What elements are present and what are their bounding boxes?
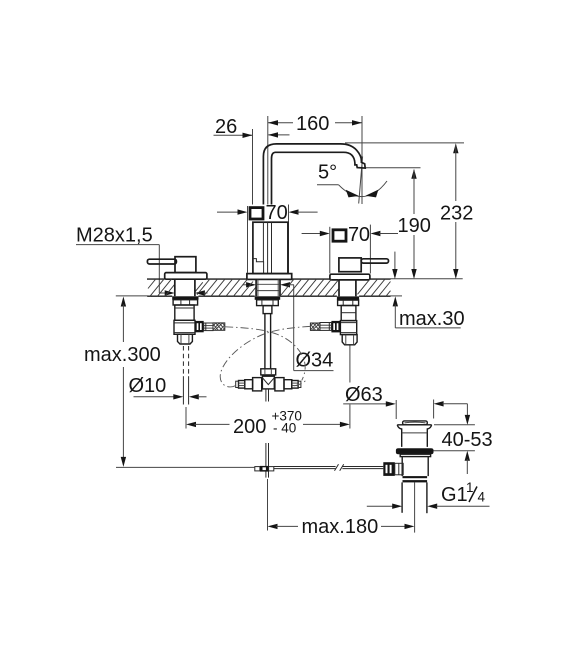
spout outline	[263, 144, 365, 205]
long horizontal reference line (max.300 base)	[116, 466, 255, 468]
pull rod vertical	[266, 389, 269, 478]
extension line x=362 (5 deg reference)	[361, 116, 363, 204]
extension line B x=267.8	[267, 116, 269, 205]
drain seal ring (black)	[396, 448, 434, 454]
diameter34 callout arrows and leader	[243, 282, 334, 371]
deck top line	[147, 278, 391, 280]
drain plug knob	[403, 421, 428, 425]
right hose sleeve	[320, 323, 331, 331]
svg-text:Ø63: Ø63	[345, 384, 383, 406]
drain under-seal lip	[400, 454, 430, 456]
center tube nut	[261, 369, 276, 375]
svg-text:190: 190	[398, 215, 431, 237]
svg-text:4: 4	[478, 490, 486, 505]
drain flange ring	[397, 425, 431, 447]
left valve bottom nut	[178, 334, 193, 344]
drain tailpipe	[402, 482, 427, 513]
center locknut	[257, 300, 279, 306]
right handle body	[339, 258, 361, 272]
center body internal waterway	[253, 259, 264, 274]
svg-text:200: 200	[233, 416, 266, 438]
svg-text:max.180: max.180	[302, 516, 379, 538]
left hose sleeve	[204, 323, 213, 331]
left valve locknut	[173, 300, 198, 305]
right shank through deck	[339, 280, 356, 296]
drain body	[402, 457, 428, 477]
svg-text:5°: 5°	[318, 162, 337, 184]
left escutcheon	[165, 273, 207, 280]
G1 1/4 leader	[367, 504, 490, 509]
right handle lever	[361, 259, 388, 263]
drain rod knurled adjuster	[383, 462, 395, 476]
max.30 lower arrow and leader	[393, 296, 461, 328]
phantom hose curve from right valve with loop	[220, 326, 310, 387]
svg-text:1: 1	[466, 480, 474, 495]
left valve rod solid	[183, 376, 188, 404]
M28x1,5 leader	[76, 245, 208, 296]
right valve body	[341, 306, 356, 321]
center supply tube	[265, 314, 271, 369]
left valve washer (black)	[172, 296, 198, 299]
dimension 160	[268, 120, 362, 125]
left valve mid section	[174, 320, 195, 334]
right check valve	[275, 378, 301, 391]
phantom hose curve from left valve	[225, 327, 305, 381]
svg-text:- 40: - 40	[273, 421, 296, 436]
left hose knurled nut	[195, 321, 204, 332]
dim square70 no1 arrows and extensions	[217, 205, 318, 273]
svg-text:70: 70	[266, 202, 288, 224]
drain rod connector piece	[395, 463, 403, 475]
dim square symbol 2	[333, 230, 346, 241]
5 deg arc	[339, 181, 387, 197]
pull rod connector	[255, 466, 274, 472]
svg-text:40-53: 40-53	[442, 429, 493, 451]
left handle body	[175, 257, 196, 273]
left valve hidden rod (dashed)	[183, 346, 188, 376]
svg-text:26: 26	[215, 116, 237, 138]
phantom snippet near right check valve	[294, 379, 307, 386]
deck bottom line	[147, 295, 390, 297]
center shank through deck	[256, 279, 280, 296]
svg-text:70: 70	[348, 224, 370, 246]
rod break marks	[335, 464, 344, 471]
5 deg tilted axis	[359, 157, 363, 204]
white knockout behind 200 dimension text	[230, 402, 304, 444]
right valve locknut	[338, 300, 359, 305]
center body	[253, 222, 288, 273]
center adapter	[263, 306, 272, 314]
deck hatch	[148, 279, 391, 296]
left valve body	[175, 305, 194, 320]
right valve mid section	[340, 321, 356, 335]
left check valve	[236, 378, 262, 391]
svg-text:160: 160	[296, 113, 329, 135]
svg-text:M28x1,5: M28x1,5	[76, 225, 153, 247]
dimension 232	[453, 143, 458, 279]
dim square symbol 1	[250, 208, 263, 219]
drain thread bands	[403, 476, 428, 478]
dimension 190	[411, 169, 416, 279]
dimension 40-53	[434, 404, 475, 474]
dimension 26	[214, 132, 290, 138]
right hose knurled nut	[331, 321, 341, 333]
center washer (black)	[255, 296, 281, 300]
T-piece center block with funnel	[262, 376, 274, 389]
left handle lever	[147, 259, 176, 264]
dimension 200 +370-40	[186, 345, 350, 429]
dimension max.180	[268, 479, 415, 533]
svg-text:max.300: max.300	[84, 344, 161, 366]
diameter63 callout	[343, 400, 467, 420]
left hose braid	[213, 323, 225, 330]
center escutcheon	[247, 274, 292, 280]
riser tube lines inside body	[263, 222, 271, 273]
extension line A x=252.5	[252, 129, 254, 205]
diameter10 callout	[134, 394, 207, 399]
right hose braid	[310, 323, 320, 330]
5 deg leader underline	[317, 184, 339, 186]
outlet extension line (190 ref)	[365, 167, 420, 169]
right escutcheon	[330, 274, 370, 280]
svg-text:Ø10: Ø10	[129, 375, 167, 397]
right valve washer (black)	[337, 296, 359, 300]
svg-text:232: 232	[440, 203, 473, 225]
horizontal pull rod to drain	[274, 467, 384, 469]
spout top extension line (232 ref)	[345, 142, 464, 144]
svg-text:max.30: max.30	[399, 308, 465, 330]
max.300 dimension	[116, 296, 148, 467]
max.30 upper arrow	[392, 252, 397, 279]
deck bottom right extension	[391, 295, 403, 297]
dim square70 no2 arrows and extensions	[302, 225, 398, 274]
left shank through deck	[175, 279, 195, 296]
deck top right extension	[391, 278, 463, 280]
right valve bottom nut	[342, 335, 357, 345]
fraction slash of G1 1/4	[469, 487, 477, 503]
svg-text:G1: G1	[441, 484, 468, 506]
